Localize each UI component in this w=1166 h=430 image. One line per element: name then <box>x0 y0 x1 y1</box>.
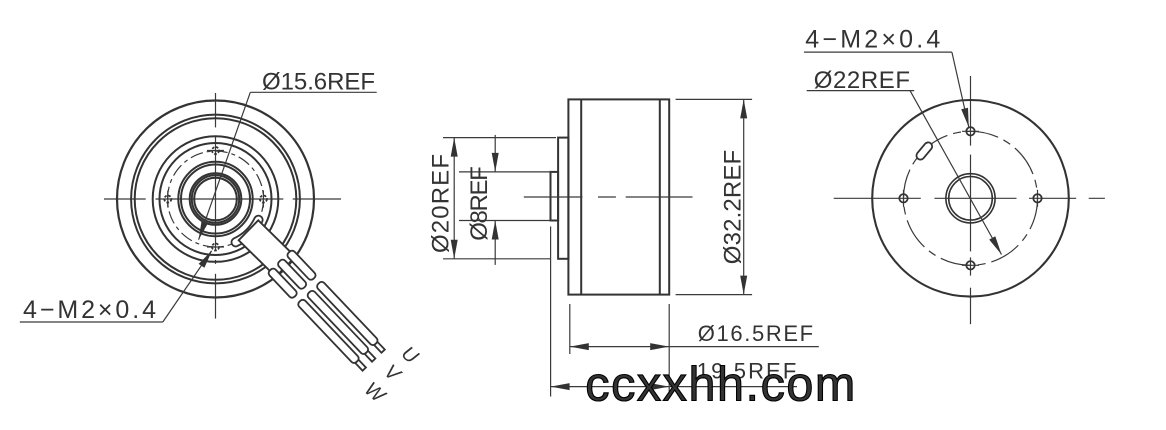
wire 3 short segment <box>267 267 298 299</box>
right hole tick north <box>962 130 979 132</box>
wires U V W <box>267 249 386 372</box>
cable sheath <box>239 220 296 276</box>
left view bolt circle dashed <box>168 151 264 247</box>
dia8 arrow top <box>492 153 499 172</box>
dia32.2 extension top <box>676 98 753 100</box>
svg-text:V: V <box>380 360 406 386</box>
svg-text:Ø16.5REF: Ø16.5REF <box>698 321 813 346</box>
dia32.2 arrow bottom <box>740 276 747 295</box>
svg-text:Ø8REF: Ø8REF <box>466 166 493 241</box>
left hole tick bottom <box>207 246 224 248</box>
left hole tick east <box>262 191 264 208</box>
left view circle r84 <box>131 115 300 284</box>
left view outer circle <box>117 101 314 298</box>
dia32.2 arrow top <box>740 99 747 118</box>
wire 3 tip <box>355 360 366 371</box>
leader line 4-M2 right <box>952 52 969 127</box>
leader line dia15.6 <box>199 92 251 239</box>
19.5 arrow left <box>551 383 570 390</box>
wire 3 long segment <box>297 298 360 364</box>
left view circle r63 <box>153 136 279 262</box>
dia32.2 dimension line <box>743 99 745 294</box>
dia32.2 extension bottom <box>676 294 753 296</box>
dia8 dimension line bottom <box>494 221 496 265</box>
dia16.5 arrow right <box>650 343 669 350</box>
dia16.5 extension left <box>569 304 571 354</box>
wire 1 short segment <box>286 249 317 281</box>
right view outer circle <box>872 100 1069 297</box>
leader line 4-M2 left <box>163 251 212 322</box>
dia20 extension bottom <box>443 258 551 260</box>
left view circle r81 <box>135 118 297 280</box>
middle body inner line left <box>580 99 582 294</box>
left view shaft ring r26 <box>190 173 242 225</box>
left view centerline vertical <box>215 93 217 319</box>
right hole tick east <box>1037 190 1039 207</box>
right view hole right <box>1033 194 1041 202</box>
dia20 dimension line <box>453 138 455 259</box>
dia8 arrow bottom <box>492 221 499 240</box>
right view hole left <box>899 194 907 202</box>
underline 4-M2 right <box>804 51 952 53</box>
svg-text:U: U <box>397 342 423 368</box>
left hole tick top <box>207 150 224 152</box>
19.5 arrow right <box>650 383 669 390</box>
left view hole left <box>164 196 171 203</box>
arrowhead dia15.6 <box>199 221 209 240</box>
svg-text:Ø32.2REF: Ø32.2REF <box>720 150 747 264</box>
middle centerline <box>524 196 693 198</box>
middle flange dia20 <box>558 138 568 259</box>
svg-text:4−M2×0.4: 4−M2×0.4 <box>23 296 156 324</box>
dia16.5 arrow left <box>570 343 589 350</box>
right view centerline horizontal <box>834 197 1105 199</box>
left view shaft ring r24 <box>192 175 239 222</box>
underline 4-M2 left <box>20 321 163 323</box>
wire 1 long segment <box>316 280 379 346</box>
left view centerline horizontal <box>104 198 341 200</box>
wire 2 tip <box>365 351 376 362</box>
left view hole right <box>260 196 267 203</box>
dia20 arrow bottom <box>451 240 458 259</box>
right view boss circle outer <box>946 174 995 223</box>
svg-text:ccxxhh.com: ccxxhh.com <box>585 358 855 412</box>
underline dia22 <box>807 90 915 92</box>
svg-text:4−M2×0.4: 4−M2×0.4 <box>805 26 940 54</box>
dia8 extension bottom <box>459 220 552 222</box>
arrowhead 4-M2 left <box>199 250 213 268</box>
dia20 extension top <box>443 137 556 139</box>
right view centerline vertical <box>970 76 972 324</box>
right view index slot <box>915 141 934 161</box>
dia8 dimension line top <box>494 135 496 172</box>
left view hole bottom <box>212 244 219 251</box>
svg-text:Ø20REF: Ø20REF <box>428 154 455 253</box>
svg-text:Ø22REF: Ø22REF <box>814 67 910 94</box>
left view hub circle r37 <box>178 162 252 236</box>
right view bolt circle dashed <box>904 131 1038 265</box>
middle view body <box>568 99 669 294</box>
middle body inner line right <box>659 99 661 294</box>
arrowhead dia22 <box>989 236 1001 254</box>
left view shaft ring r21 <box>194 178 237 221</box>
arrowhead 4-M2 right <box>961 108 969 127</box>
left hole tick west <box>167 191 169 208</box>
19.5 extension left <box>550 227 552 397</box>
svg-text:W: W <box>360 378 390 408</box>
wire 2 long segment <box>306 289 369 355</box>
right hole tick south <box>962 264 979 266</box>
right view hole top <box>966 127 974 135</box>
wire exit slot <box>231 215 262 248</box>
leader line dia22 <box>910 91 1002 255</box>
left view hole top <box>212 147 219 154</box>
dia20 arrow top <box>451 138 458 157</box>
right view boss circle inner <box>949 177 993 221</box>
wire 2 short segment <box>277 258 308 290</box>
dia16.5 dimension line <box>570 346 819 348</box>
svg-text:Ø15.6REF: Ø15.6REF <box>262 69 375 96</box>
middle shaft dia8 <box>551 172 559 221</box>
right hole tick west <box>903 190 905 207</box>
underline dia15.6 <box>250 91 376 93</box>
wire 1 tip <box>374 342 385 353</box>
dia16.5/19.5 extension right <box>668 304 670 397</box>
right view hole bottom <box>966 261 974 269</box>
left view hub circle r34 <box>181 165 250 234</box>
19.5 dimension line <box>551 386 797 388</box>
left view circle r56 <box>160 143 272 255</box>
dia8 extension top <box>459 171 552 173</box>
